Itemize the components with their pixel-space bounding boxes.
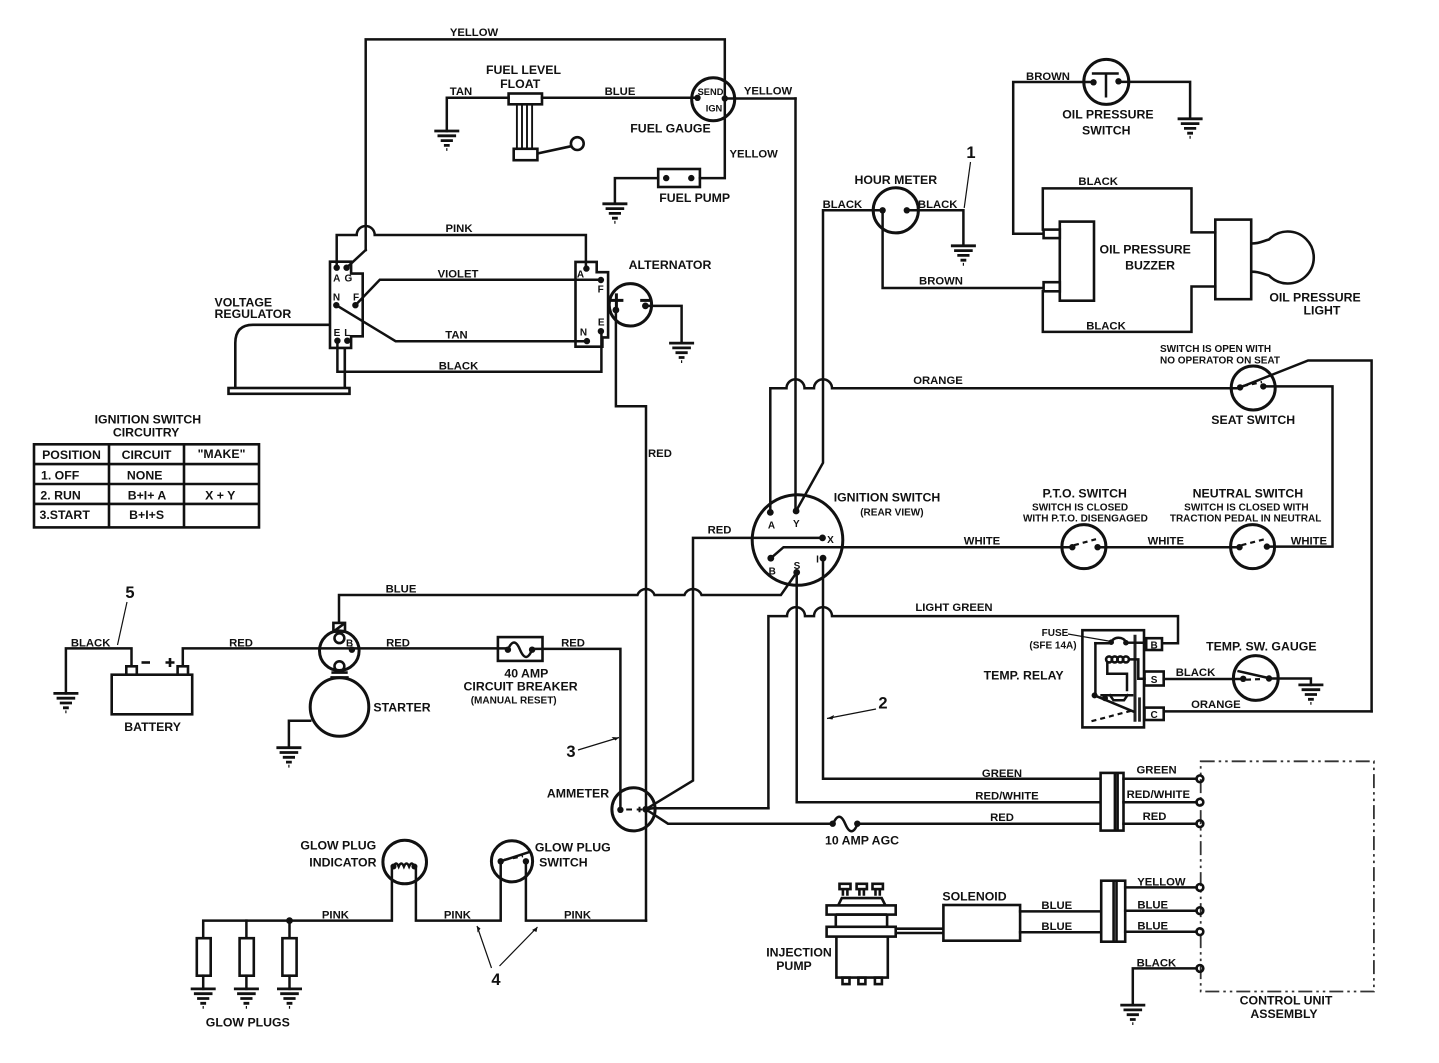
svg-text:RED/WHITE: RED/WHITE	[975, 791, 1039, 803]
svg-text:B: B	[1150, 640, 1157, 651]
wire pink ammeter riser to glow plug switch	[526, 861, 646, 920]
svg-text:RED: RED	[708, 525, 732, 537]
wire black temp relay S to gauge	[1164, 678, 1244, 681]
temp sw gauge	[1233, 656, 1278, 701]
svg-text:HOUR METER: HOUR METER	[854, 173, 937, 187]
svg-text:BLACK: BLACK	[1078, 176, 1118, 188]
ground fuel pump	[602, 204, 627, 223]
solenoid	[943, 905, 1020, 941]
svg-text:(SFE 14A): (SFE 14A)	[1029, 641, 1076, 652]
connector harness 2	[1101, 881, 1125, 942]
circuit breaker 40A	[498, 637, 543, 661]
svg-text:RED/WHITE: RED/WHITE	[1127, 789, 1191, 801]
wire blue float to gauge	[542, 97, 698, 100]
svg-text:B: B	[769, 567, 776, 578]
label battery plus sign	[166, 658, 175, 667]
svg-text:BUZZER: BUZZER	[1125, 259, 1175, 273]
starter collar	[330, 673, 348, 678]
svg-text:GLOW PLUGS: GLOW PLUGS	[206, 1016, 290, 1030]
terminal F alternator	[598, 277, 604, 296]
wire orange temp relay C to seat switch riser	[1164, 710, 1372, 713]
svg-text:WITH P.T.O. DISENGAGED: WITH P.T.O. DISENGAGED	[1023, 514, 1148, 525]
svg-text:BLACK: BLACK	[1086, 321, 1126, 333]
svg-text:ORANGE: ORANGE	[913, 375, 963, 387]
wire starter to ground	[289, 721, 310, 748]
svg-text:S: S	[1151, 675, 1158, 686]
ground oil switch	[1178, 119, 1203, 138]
svg-text:BLUE: BLUE	[1041, 921, 1072, 933]
svg-text:YELLOW: YELLOW	[450, 27, 499, 39]
wire blue solenoid top	[1020, 910, 1101, 913]
wire pink switch to indicator	[416, 861, 501, 920]
table row 1 OFF	[41, 469, 162, 483]
leaders for 4	[477, 926, 538, 968]
svg-text:BLUE: BLUE	[386, 584, 417, 596]
svg-text:FUEL PUMP: FUEL PUMP	[659, 191, 730, 205]
wire red ammeter to 10A fuse to connector	[646, 809, 1101, 823]
battery	[112, 666, 193, 714]
svg-text:POSITION: POSITION	[42, 448, 101, 462]
terminal L regulator	[344, 328, 350, 344]
wire black hour meter to ignition Y	[796, 210, 883, 511]
svg-text:BLACK: BLACK	[1137, 958, 1177, 970]
label 40 AMP CIRCUIT BREAKER	[464, 667, 578, 707]
control unit assembly box	[1201, 761, 1374, 991]
svg-text:B+I+S: B+I+S	[129, 508, 164, 522]
terminal X ignition	[819, 535, 834, 547]
svg-text:OIL PRESSURE: OIL PRESSURE	[1269, 291, 1360, 305]
temp relay coil	[1106, 656, 1129, 662]
wire tan to fuel float	[447, 98, 509, 131]
svg-text:BLUE: BLUE	[1041, 900, 1072, 912]
leader for 1	[964, 162, 970, 208]
glow plug 3	[282, 921, 296, 989]
terminal S ignition	[793, 561, 800, 576]
svg-text:TEMP. RELAY: TEMP. RELAY	[984, 669, 1064, 683]
table row 2 RUN	[40, 488, 235, 502]
svg-text:Y: Y	[793, 519, 800, 530]
temp relay fuse	[1095, 638, 1146, 646]
svg-text:YELLOW: YELLOW	[1137, 877, 1186, 889]
wire pink regulator A to alternator A	[337, 226, 586, 269]
label IGNITION SWITCH CIRCUITRY	[95, 413, 202, 440]
svg-text:FUEL GAUGE: FUEL GAUGE	[630, 122, 710, 136]
ground glow plug 2	[234, 989, 259, 1008]
wire alternator minus to ground	[645, 306, 681, 343]
svg-text:TAN: TAN	[445, 330, 467, 342]
control unit terminal green	[1197, 775, 1204, 782]
svg-text:ORANGE: ORANGE	[1191, 699, 1241, 711]
svg-text:(REAR VIEW): (REAR VIEW)	[860, 508, 923, 519]
svg-text:IGNITION SWITCH: IGNITION SWITCH	[95, 413, 202, 427]
wire tan N to N	[336, 305, 587, 341]
temp relay box	[1082, 630, 1144, 727]
fuse 10 AMP AGC	[830, 817, 861, 832]
glow plug switch	[491, 841, 532, 882]
svg-text:GLOW PLUG: GLOW PLUG	[535, 841, 611, 855]
control unit terminal red-white	[1197, 799, 1204, 806]
svg-text:BLUE: BLUE	[605, 86, 636, 98]
label FUSE (SFE 14A)	[1029, 628, 1076, 652]
label INJECTION PUMP	[766, 946, 832, 974]
ground temp gauge	[1298, 685, 1323, 704]
svg-text:BLUE: BLUE	[1137, 921, 1168, 933]
wire pink indicator to glow plugs	[203, 867, 392, 939]
svg-text:40 AMP: 40 AMP	[504, 667, 548, 681]
label NEUTRAL SWITCH	[1170, 487, 1321, 525]
svg-text:WHITE: WHITE	[964, 536, 1001, 548]
svg-text:5: 5	[125, 584, 134, 602]
PTO switch	[1062, 525, 1106, 569]
wire brown to oil pressure switch	[1013, 82, 1093, 234]
svg-text:WHITE: WHITE	[1291, 536, 1328, 548]
leader for 2	[827, 709, 876, 720]
wire yellow gauge to ignition vertical	[725, 97, 796, 100]
wire white ignition B to PTO switch	[771, 547, 1073, 558]
svg-text:LIGHT GREEN: LIGHT GREEN	[915, 602, 992, 614]
wire green ignition I down	[823, 558, 1101, 779]
alternator terminal block	[576, 262, 609, 347]
wire black battery minus to ground	[66, 648, 132, 693]
svg-text:SWITCH IS OPEN WITH: SWITCH IS OPEN WITH	[1160, 344, 1271, 355]
terminal N regulator	[333, 293, 340, 309]
svg-text:SWITCH: SWITCH	[539, 856, 588, 870]
svg-text:FLOAT: FLOAT	[500, 77, 541, 91]
svg-text:RED: RED	[386, 638, 410, 650]
temp relay armature bar 2	[1138, 697, 1141, 721]
svg-text:X + Y: X + Y	[205, 488, 235, 502]
wire black E to E	[337, 331, 601, 372]
control unit terminal black	[1197, 965, 1204, 972]
svg-text:STARTER: STARTER	[373, 701, 430, 715]
wire blue connector2 top to control unit	[1125, 909, 1196, 912]
wire red-white ignition S down	[797, 572, 1101, 802]
wire blue solenoid bottom	[1020, 931, 1101, 934]
oil pressure switch	[1084, 59, 1129, 104]
svg-text:RED: RED	[990, 812, 1014, 824]
label OIL PRESSURE BUZZER	[1100, 243, 1191, 273]
svg-text:I: I	[816, 555, 819, 566]
label CONTROL UNIT ASSEMBLY	[1240, 994, 1333, 1022]
svg-text:BROWN: BROWN	[919, 276, 963, 288]
svg-text:IGN: IGN	[706, 104, 723, 114]
svg-text:GREEN: GREEN	[1137, 764, 1177, 776]
svg-text:SWITCH IS CLOSED: SWITCH IS CLOSED	[1032, 503, 1128, 514]
svg-text:SWITCH IS CLOSED WITH: SWITCH IS CLOSED WITH	[1184, 503, 1308, 514]
svg-text:L: L	[344, 328, 350, 339]
wire yellow diagonal to G	[347, 250, 366, 268]
svg-text:BLUE: BLUE	[1137, 900, 1168, 912]
svg-text:SWITCH: SWITCH	[1082, 124, 1131, 138]
svg-text:10 AMP AGC: 10 AMP AGC	[825, 834, 899, 848]
wire blue connector2 bottom to control unit	[1125, 930, 1196, 933]
svg-text:A: A	[577, 270, 584, 281]
svg-text:B+I+ A: B+I+ A	[128, 488, 167, 502]
control unit terminal blue bottom	[1197, 928, 1204, 935]
svg-text:NEUTRAL SWITCH: NEUTRAL SWITCH	[1193, 487, 1304, 501]
svg-text:A: A	[333, 274, 340, 285]
wire white seat switch to neutral switch	[1263, 386, 1332, 546]
temp relay coil right lead	[1129, 659, 1145, 678]
table row 3 START	[40, 508, 165, 522]
neutral switch	[1231, 525, 1275, 569]
svg-text:CIRCUITRY: CIRCUITRY	[113, 426, 180, 440]
wire fuel pump to ground	[615, 178, 658, 204]
wire black buzzer top loop	[1043, 188, 1216, 232]
terminal B ignition	[767, 555, 776, 578]
svg-text:FUEL LEVEL: FUEL LEVEL	[486, 63, 561, 77]
wire green connector to control unit	[1124, 778, 1197, 781]
table header row	[42, 447, 245, 462]
svg-text:4: 4	[491, 971, 501, 989]
svg-text:BATTERY: BATTERY	[124, 720, 181, 734]
oil pressure light bulb	[1252, 232, 1314, 284]
hour meter	[873, 188, 918, 233]
svg-text:IGNITION SWITCH: IGNITION SWITCH	[834, 491, 941, 505]
wire brown hour meter to buzzer	[883, 210, 1044, 288]
wire yellow gauge down to fuel pump	[700, 99, 725, 179]
svg-text:N: N	[333, 293, 340, 304]
svg-text:BLACK: BLACK	[1176, 667, 1216, 679]
ground starter	[276, 748, 301, 767]
wire black hour meter right to ground	[907, 210, 964, 246]
svg-text:1: 1	[966, 144, 975, 162]
control unit terminal blue top	[1197, 907, 1204, 914]
svg-text:AMMETER: AMMETER	[547, 787, 609, 801]
svg-text:RED: RED	[561, 638, 585, 650]
wire yellow vertical to ignition Y	[794, 99, 797, 512]
svg-text:N: N	[580, 328, 587, 339]
terminal S temp relay	[1145, 672, 1164, 687]
label GLOW PLUG SWITCH	[535, 841, 611, 870]
wire ammeter plus to light green riser	[646, 808, 769, 809]
svg-text:"MAKE": "MAKE"	[198, 447, 246, 461]
label GLOW PLUG INDICATOR	[300, 839, 376, 870]
svg-text:3: 3	[566, 743, 575, 761]
svg-text:RED: RED	[648, 448, 672, 460]
wire red ignition X to ammeter	[646, 538, 823, 809]
wire yellow connector2 to control unit	[1125, 886, 1196, 889]
svg-text:2. RUN: 2. RUN	[40, 488, 80, 502]
terminal A ignition	[767, 509, 775, 531]
wire red battery to starter to breaker	[183, 648, 508, 666]
temp relay blade alternate	[1092, 710, 1134, 721]
terminal B temp relay	[1146, 638, 1162, 651]
svg-text:S: S	[794, 561, 801, 572]
starter motor	[310, 678, 369, 737]
terminal F regulator	[352, 293, 359, 309]
wire red breaker to ammeter	[532, 649, 620, 810]
voltage regulator terminal block	[330, 262, 363, 348]
ground alternator	[669, 343, 694, 362]
ground glow plug 3	[277, 989, 302, 1008]
terminal Y ignition	[793, 508, 800, 530]
ground hour meter	[951, 246, 976, 264]
svg-text:YELLOW: YELLOW	[744, 86, 793, 98]
svg-text:1. OFF: 1. OFF	[41, 469, 80, 483]
svg-text:WHITE: WHITE	[1148, 536, 1185, 548]
terminal C temp relay	[1145, 708, 1164, 721]
svg-text:TEMP. SW. GAUGE: TEMP. SW. GAUGE	[1206, 640, 1316, 654]
ground control black	[1120, 1005, 1145, 1024]
fuel pump	[658, 169, 700, 187]
injection pump	[827, 884, 896, 984]
starter solenoid B tab	[333, 623, 345, 632]
svg-text:2: 2	[878, 695, 887, 713]
wire violet F to F	[355, 280, 601, 305]
svg-text:GLOW PLUG: GLOW PLUG	[300, 839, 376, 853]
wire light green ammeter to temp relay B	[768, 607, 1178, 808]
wire red-white connector to control unit	[1124, 801, 1197, 804]
wire black buzzer bottom loop	[1043, 287, 1216, 332]
voltage regulator dome	[229, 325, 350, 394]
svg-text:BROWN: BROWN	[1026, 71, 1070, 83]
svg-text:LIGHT: LIGHT	[1304, 304, 1341, 318]
wire yellow top run	[366, 39, 725, 250]
label FUEL LEVEL FLOAT	[486, 63, 561, 91]
svg-text:INDICATOR: INDICATOR	[309, 856, 376, 870]
svg-text:PUMP: PUMP	[776, 959, 812, 973]
svg-text:PINK: PINK	[564, 910, 592, 922]
svg-text:TAN: TAN	[450, 86, 472, 98]
wire temp gauge to ground	[1269, 679, 1311, 685]
svg-text:A: A	[768, 521, 775, 532]
svg-text:E: E	[334, 328, 341, 339]
oil pressure light socket	[1215, 220, 1251, 300]
temp relay blade	[1095, 695, 1134, 711]
terminal N alternator	[580, 328, 590, 345]
svg-text:E: E	[598, 318, 605, 329]
svg-text:NONE: NONE	[127, 469, 163, 483]
ammeter	[612, 788, 655, 831]
svg-text:CIRCUIT: CIRCUIT	[122, 448, 172, 462]
terminal G regulator	[343, 265, 352, 285]
label PTO SWITCH	[1023, 487, 1148, 525]
table ignition switch circuitry	[34, 444, 259, 527]
wire blue ignition S to starter	[339, 572, 797, 623]
terminal A alternator	[577, 265, 590, 280]
svg-text:(MANUAL RESET): (MANUAL RESET)	[471, 696, 557, 707]
svg-text:TRACTION PEDAL IN NEUTRAL: TRACTION PEDAL IN NEUTRAL	[1170, 514, 1321, 525]
svg-text:OIL PRESSURE: OIL PRESSURE	[1100, 243, 1191, 257]
svg-text:ALTERNATOR: ALTERNATOR	[629, 258, 712, 272]
terminal E alternator	[598, 318, 605, 335]
svg-text:3.START: 3.START	[40, 508, 91, 522]
wire oil switch to ground	[1119, 82, 1191, 119]
ground tan	[434, 131, 459, 150]
glow plug indicator	[383, 840, 427, 884]
terminal I ignition	[816, 555, 826, 566]
svg-text:PINK: PINK	[322, 910, 350, 922]
svg-text:REGULATOR: REGULATOR	[215, 307, 292, 321]
svg-text:VIOLET: VIOLET	[438, 269, 479, 281]
starter solenoid	[320, 631, 360, 671]
junction glow plugs	[286, 917, 293, 924]
svg-text:F: F	[598, 285, 604, 296]
glow plug 1	[197, 938, 211, 989]
terminal E regulator	[334, 328, 341, 344]
svg-text:SEND: SEND	[698, 87, 724, 97]
wire orange ignition A to seat switch	[770, 379, 1240, 512]
svg-text:GREEN: GREEN	[982, 768, 1022, 780]
svg-text:OIL PRESSURE: OIL PRESSURE	[1062, 108, 1153, 122]
control unit terminal yellow	[1197, 884, 1204, 891]
temp relay armature bar	[1134, 635, 1137, 722]
wire red connector to control unit	[1124, 822, 1197, 825]
alternator circle	[609, 284, 651, 326]
svg-text:BLACK: BLACK	[71, 638, 111, 650]
svg-text:BLACK: BLACK	[439, 361, 479, 373]
label SWITCH IS OPEN WITH NO OPERATOR ON SEAT	[1160, 344, 1280, 367]
svg-text:PINK: PINK	[446, 223, 474, 235]
label IGNITION SWITCH	[834, 491, 941, 519]
svg-text:NO OPERATOR ON SEAT: NO OPERATOR ON SEAT	[1160, 356, 1280, 367]
label OIL PRESSURE LIGHT	[1269, 291, 1360, 318]
svg-text:X: X	[827, 535, 834, 546]
leader for 3	[578, 737, 619, 750]
temp relay left conductor	[1094, 643, 1097, 694]
label OIL PRESSURE SWITCH	[1062, 108, 1153, 138]
svg-text:SOLENOID: SOLENOID	[942, 890, 1006, 904]
svg-text:CONTROL UNIT: CONTROL UNIT	[1240, 994, 1333, 1008]
temp relay contacts	[1092, 692, 1133, 701]
wire black control unit to ground	[1133, 968, 1197, 1005]
fuel gauge	[692, 78, 735, 121]
svg-text:PINK: PINK	[444, 910, 472, 922]
svg-text:INJECTION: INJECTION	[766, 946, 832, 960]
connector harness 1	[1101, 773, 1124, 831]
injection pump shaft	[896, 929, 944, 933]
temp relay coil left lead	[1107, 662, 1127, 690]
svg-text:C: C	[1150, 710, 1157, 721]
glow plug 2	[240, 921, 254, 989]
ground battery	[53, 693, 78, 712]
svg-text:ASSEMBLY: ASSEMBLY	[1250, 1007, 1317, 1021]
control unit terminal red	[1197, 820, 1204, 827]
svg-text:RED: RED	[1143, 811, 1167, 823]
wire orange seat switch blade to temp relay C	[1240, 361, 1372, 712]
ground glow plug 1	[191, 989, 216, 1008]
svg-text:CIRCUIT BREAKER: CIRCUIT BREAKER	[464, 680, 578, 694]
svg-text:FUSE: FUSE	[1042, 628, 1069, 639]
terminal A regulator	[333, 265, 340, 285]
wire white PTO to neutral	[1098, 546, 1240, 549]
oil pressure buzzer body	[1044, 222, 1094, 301]
seat switch	[1231, 366, 1275, 410]
label battery minus sign	[142, 661, 151, 664]
svg-text:P.T.O. SWITCH: P.T.O. SWITCH	[1042, 487, 1127, 501]
leader fuse	[1068, 634, 1111, 641]
svg-text:SEAT SWITCH: SEAT SWITCH	[1211, 413, 1295, 427]
label VOLTAGE REGULATOR	[215, 296, 292, 322]
leader for 5	[118, 602, 128, 645]
fuel level float body	[509, 94, 584, 161]
svg-text:G: G	[345, 274, 353, 285]
wire red alternator plus down to ammeter	[616, 310, 646, 921]
ignition switch circle	[752, 495, 843, 586]
svg-text:RED: RED	[229, 638, 253, 650]
svg-text:YELLOW: YELLOW	[730, 149, 779, 161]
